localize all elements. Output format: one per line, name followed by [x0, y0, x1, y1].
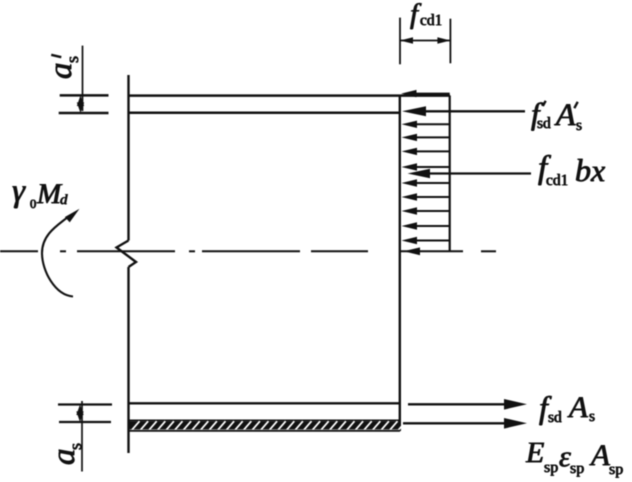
hatch band bottom line	[128, 430, 400, 432]
stress block small arrow row 3	[402, 134, 450, 141]
beam left edge (upper part)	[127, 75, 129, 241]
stress block small arrow row 7	[402, 193, 450, 200]
centerline (dash-dot neutral axis)	[0, 250, 496, 252]
label fcd1 bx	[538, 152, 547, 185]
right bottom arrow fsd As	[408, 399, 527, 410]
big arrow fcd1 bx	[408, 169, 532, 178]
compression steel line A's	[128, 112, 400, 115]
stress block small arrow row 5	[402, 163, 450, 170]
right bottom arrow Esp eps Asp	[403, 418, 527, 429]
stress block small arrow row 2	[402, 121, 450, 128]
beam right edge	[399, 95, 401, 431]
a's dimension arrows	[77, 95, 84, 106]
as dimension tick top	[58, 403, 112, 405]
label as (rotated)	[48, 449, 81, 466]
stress block right edge	[449, 96, 451, 252]
break (zigzag) in beam left edge	[117, 241, 137, 268]
label gamma0 Md	[12, 175, 25, 208]
stress block small arrow row 9	[402, 222, 450, 229]
hatch band top line	[128, 419, 400, 421]
prime of f'sd	[543, 101, 546, 106]
as dimension extension line	[81, 401, 83, 472]
a's dimension tick bottom	[59, 112, 109, 115]
stress block small arrow row 10	[402, 237, 450, 244]
moment arc gamma0 Md	[42, 216, 73, 297]
label f'sd A's	[531, 98, 540, 129]
label a's (rotated)	[45, 62, 78, 79]
stress block small arrow row 4	[402, 148, 450, 155]
moment arc arrowhead	[65, 209, 80, 223]
hatched prestressing strand band	[129, 421, 407, 430]
fcd1 dimension left extension line	[399, 18, 401, 65]
label fcd1 (top dimension)	[410, 0, 418, 29]
prime of a's (rotated)	[51, 55, 61, 57]
stress block small arrow row 8	[402, 207, 450, 214]
prime of A's	[574, 102, 577, 108]
as dimension arrows	[76, 405, 83, 416]
a's dimension tick top	[60, 94, 109, 97]
label fsd As	[539, 391, 548, 423]
stress block small arrow row 1	[401, 90, 450, 97]
stress block small arrow row 6	[402, 179, 450, 186]
as dimension tick bottom	[59, 421, 111, 423]
fcd1 dimension line with arrowheads	[400, 37, 450, 44]
a's dimension extension line	[82, 46, 84, 111]
beam left edge (lower part)	[127, 267, 129, 453]
label Esp eps-sp Asp	[526, 438, 544, 468]
big arrow f'sd A's	[402, 106, 525, 116]
stress block bottom arrow (at neutral axis)	[404, 247, 421, 255]
tension steel line As	[128, 402, 400, 404]
beam top edge	[128, 94, 450, 97]
fcd1 dimension right extension line	[449, 19, 451, 64]
